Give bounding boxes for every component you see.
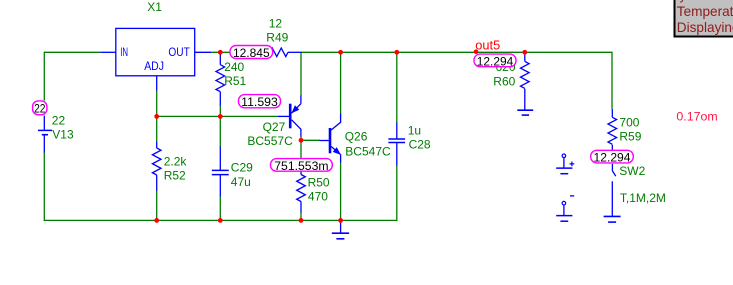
junction Q26 collector rail	[338, 50, 343, 55]
svg-text:47u: 47u	[231, 175, 251, 189]
wire right drop to R59	[611, 52, 613, 109]
svg-text:11.593: 11.593	[241, 95, 278, 109]
wire Q27 emitter drop	[300, 52, 302, 96]
svg-text:1u: 1u	[408, 124, 421, 138]
capacitor C29	[212, 147, 229, 197]
junction ADJ mid line	[154, 114, 159, 119]
junction R51 top rail	[218, 50, 223, 55]
junction R60 top rail	[522, 50, 527, 55]
svg-text:751.553m: 751.553m	[274, 159, 328, 173]
resistor R49	[253, 48, 302, 57]
svg-text:R59: R59	[619, 130, 641, 144]
node out5 dot	[474, 49, 479, 54]
junction Q26 emitter bottom rail	[338, 218, 343, 223]
voltage probe plus	[556, 154, 574, 174]
wire node to Q26 base	[301, 139, 320, 141]
wire R50 top	[300, 140, 302, 166]
wire mid line ADJ to Q27 base	[157, 115, 278, 117]
svg-text:T,1M,2M: T,1M,2M	[620, 191, 666, 205]
junction C29 bottom rail	[218, 218, 223, 223]
svg-text:12.294: 12.294	[477, 54, 514, 68]
resistor R60	[521, 52, 530, 110]
resistor R52	[152, 142, 161, 191]
switch SW2	[612, 164, 616, 217]
svg-text:22: 22	[34, 102, 45, 116]
value oval 12.294 (out5)	[474, 54, 516, 67]
wire ADJ drop green part	[156, 91, 158, 117]
wire Q27 collector to node	[300, 136, 302, 140]
svg-text:700: 700	[619, 115, 639, 129]
svg-text:22: 22	[52, 113, 66, 127]
voltage probe minus	[556, 196, 574, 221]
resistor R59	[608, 109, 617, 150]
svg-text:SW2: SW2	[619, 164, 645, 178]
wire R50 bottom	[300, 212, 302, 220]
svg-text:Displaying: Displaying	[677, 20, 733, 35]
svg-text:12: 12	[269, 16, 283, 30]
pin OUT stub	[195, 51, 211, 53]
regulator X1 box	[116, 28, 195, 75]
wire top rail left V13 to X1 IN	[44, 51, 100, 53]
junction Q27 collector Q26 base	[299, 138, 304, 143]
wire bottom rail	[44, 219, 397, 221]
svg-text:2.2k: 2.2k	[164, 155, 188, 169]
svg-text:12.294: 12.294	[594, 151, 631, 165]
junction R52 bottom rail	[154, 218, 159, 223]
svg-text:C28: C28	[409, 138, 431, 152]
resistor R50	[297, 166, 306, 213]
value oval 11.593	[239, 95, 281, 108]
battery V13	[38, 116, 52, 153]
svg-text:BC547C: BC547C	[345, 144, 391, 158]
svg-text:R52: R52	[164, 169, 186, 183]
value oval 12.845	[230, 46, 273, 59]
svg-text:ADJ: ADJ	[144, 61, 164, 73]
svg-text:X1: X1	[147, 0, 162, 14]
ground under R60	[517, 110, 533, 115]
value oval 22 (V13)	[33, 101, 47, 115]
svg-text:470: 470	[308, 189, 328, 203]
pin IN stub	[100, 51, 116, 53]
svg-text:out5: out5	[475, 38, 500, 53]
value oval 12.294 (SW2)	[591, 150, 634, 163]
svg-text:R51: R51	[224, 74, 246, 88]
svg-text:R50: R50	[308, 175, 330, 189]
wire top rail X1 OUT to right corner	[211, 51, 612, 53]
wire C29 column	[219, 116, 221, 220]
svg-text:OUT: OUT	[168, 47, 189, 59]
svg-text:Temperature: Temperature	[677, 4, 733, 19]
wire Q26 collector up	[340, 52, 342, 114]
wire V13 column upper	[43, 52, 45, 101]
note box Temperature/Displaying	[675, 0, 733, 37]
transistor Q26	[320, 114, 341, 163]
svg-text:y: y	[680, 0, 687, 3]
junction R50 bottom rail	[299, 218, 304, 223]
Q26 emitter arrow	[333, 148, 340, 155]
ground under Q26	[332, 220, 349, 238]
resistor R51	[216, 55, 225, 106]
svg-text:BC557C: BC557C	[247, 134, 293, 148]
ground under SW2	[604, 216, 621, 222]
svg-text:12.845: 12.845	[233, 46, 270, 60]
svg-text:C29: C29	[231, 161, 253, 175]
junction C28 top rail	[394, 50, 399, 55]
svg-text:R60: R60	[493, 75, 515, 89]
Q27 emitter arrow	[292, 106, 299, 113]
pin ADJ stub	[156, 76, 158, 91]
wire R51 bottom to mid line	[219, 105, 221, 116]
svg-text:IN: IN	[120, 47, 128, 59]
wire C28 column	[396, 52, 398, 221]
svg-text:0.17om: 0.17om	[676, 110, 717, 124]
wire Q26 emitter down	[340, 162, 342, 220]
junction R51 bottom C29 top	[218, 114, 223, 119]
value oval 751.553m	[271, 159, 333, 172]
svg-text:Q27: Q27	[263, 120, 286, 134]
capacitor C28	[388, 123, 405, 166]
svg-text:240: 240	[224, 60, 244, 74]
svg-text:Q26: Q26	[345, 130, 368, 144]
transistor Q27	[278, 96, 301, 137]
wire R52 column	[156, 116, 158, 220]
svg-text:R49: R49	[266, 31, 288, 45]
wire V13 column lower	[43, 152, 45, 220]
svg-text:V13: V13	[52, 128, 74, 142]
